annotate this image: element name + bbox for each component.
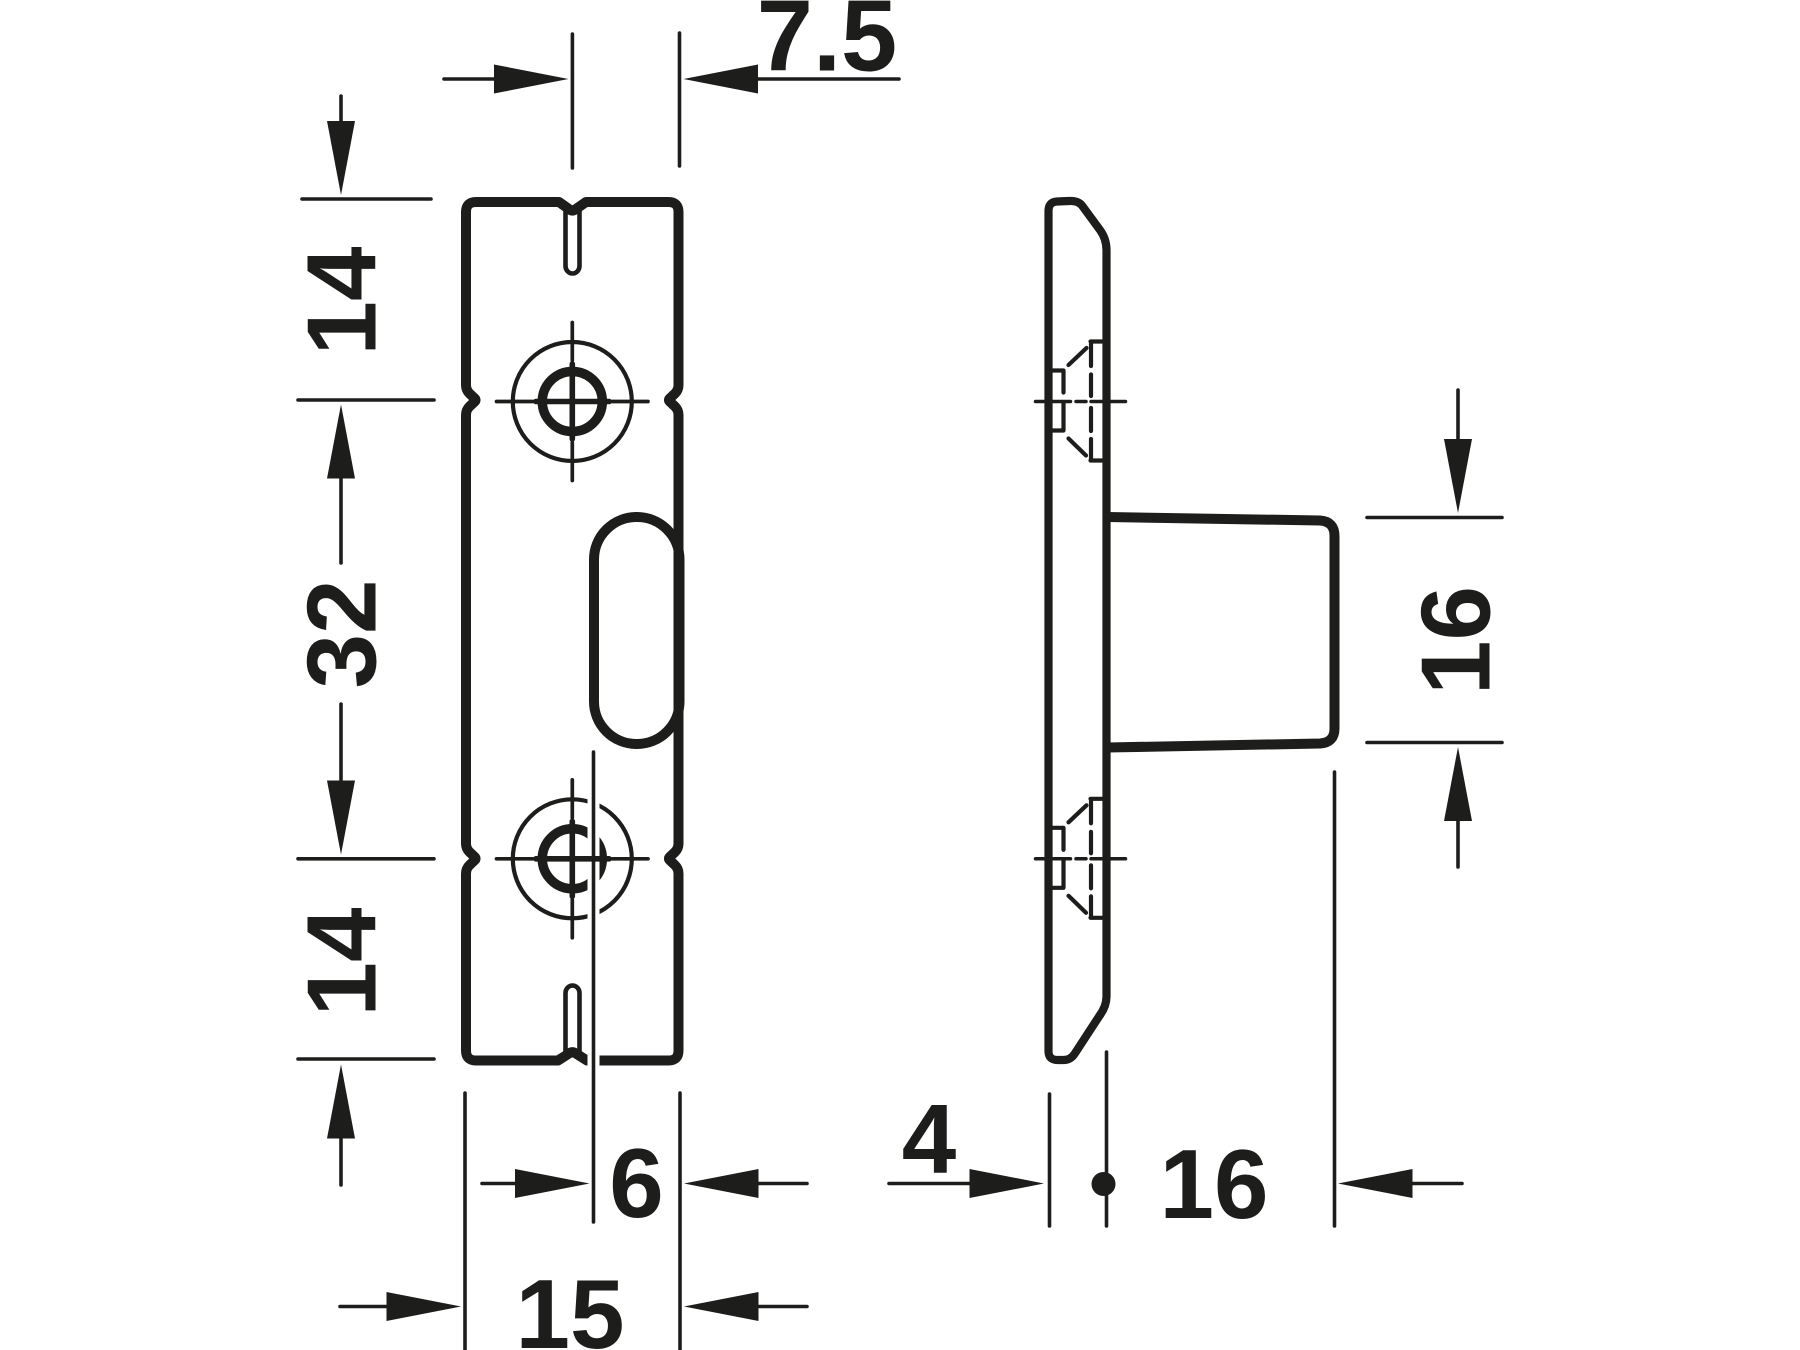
svg-text:32: 32 — [287, 579, 397, 688]
extension line below plate left edge — [463, 1093, 467, 1350]
left chain arrow down to top edge — [327, 121, 355, 195]
extension line at boss bottom — [1367, 741, 1502, 745]
dim 15 left arrow — [340, 1292, 461, 1321]
extension line below boss end — [1333, 772, 1337, 1226]
hole H2 outer circle — [513, 799, 632, 918]
bottom slit notch — [566, 986, 580, 1056]
extension line below plate right edge — [678, 1093, 682, 1350]
dim 7.5 extension line at notch centre — [571, 34, 575, 168]
svg-text:15: 15 — [515, 1259, 624, 1350]
extension line below side view left edge — [1048, 1094, 1052, 1226]
svg-text:14: 14 — [287, 907, 397, 1016]
hidden nut N1 dashed (hole H1 level) — [1051, 342, 1103, 461]
dim 16 vertical top arrow — [1444, 390, 1472, 513]
dim 4 arrow — [889, 1169, 1044, 1198]
svg-text:16: 16 — [1401, 586, 1511, 695]
extension line at plate bottom edge — [298, 1057, 434, 1061]
left chain arrow up to bottom edge — [327, 1065, 355, 1186]
hole H1 outer circle — [513, 342, 632, 461]
extension line at boss top — [1367, 516, 1502, 520]
svg-text:6: 6 — [609, 1128, 664, 1238]
top slit notch — [566, 207, 580, 274]
dim 7.5 extension line at plate right edge — [678, 33, 682, 166]
extension line below side view right edge — [1105, 1052, 1109, 1226]
dim 15 right arrow — [684, 1292, 807, 1321]
dim 4/16 dot terminator — [1092, 1172, 1116, 1196]
hole H2 inner ring — [542, 829, 602, 889]
side view plate outline — [1049, 201, 1107, 1060]
dim 7.5 left arrow — [444, 65, 569, 94]
front view plate outline — [466, 202, 679, 1061]
side view boss (cylinder) — [1108, 517, 1335, 748]
extension line from slot left edge — [592, 752, 596, 1222]
dim 7.5 right arrow — [684, 65, 900, 94]
hole H1 crosshair — [497, 323, 649, 481]
extension line at hole H2 level — [298, 857, 434, 861]
dim 32 bottom arrow down — [327, 704, 355, 855]
extension line halo for slot width — [588, 752, 600, 1222]
dim 32 top arrow up — [327, 405, 355, 564]
hole H2 crosshair — [497, 780, 649, 938]
nut N2 centreline — [1036, 857, 1126, 861]
svg-text:14: 14 — [287, 246, 397, 355]
svg-text:16: 16 — [1159, 1129, 1268, 1239]
extension line at hole H1 level — [298, 398, 434, 402]
hole H1 inner ring — [542, 372, 602, 432]
dim 16 vertical bottom arrow — [1444, 747, 1472, 867]
svg-text:4: 4 — [902, 1084, 957, 1194]
hidden nut N2 dashed (hole H2 level) — [1051, 799, 1103, 918]
svg-text:7.5: 7.5 — [757, 0, 897, 93]
dim 16 bottom right arrow — [1338, 1169, 1462, 1198]
slot (oblong hole) — [594, 517, 680, 744]
dim 6 right arrow — [684, 1169, 807, 1198]
dim 6 left arrow — [482, 1169, 590, 1198]
nut N1 centreline — [1036, 400, 1126, 404]
left chain tail top — [339, 96, 343, 128]
extension line at plate top edge — [302, 197, 431, 201]
